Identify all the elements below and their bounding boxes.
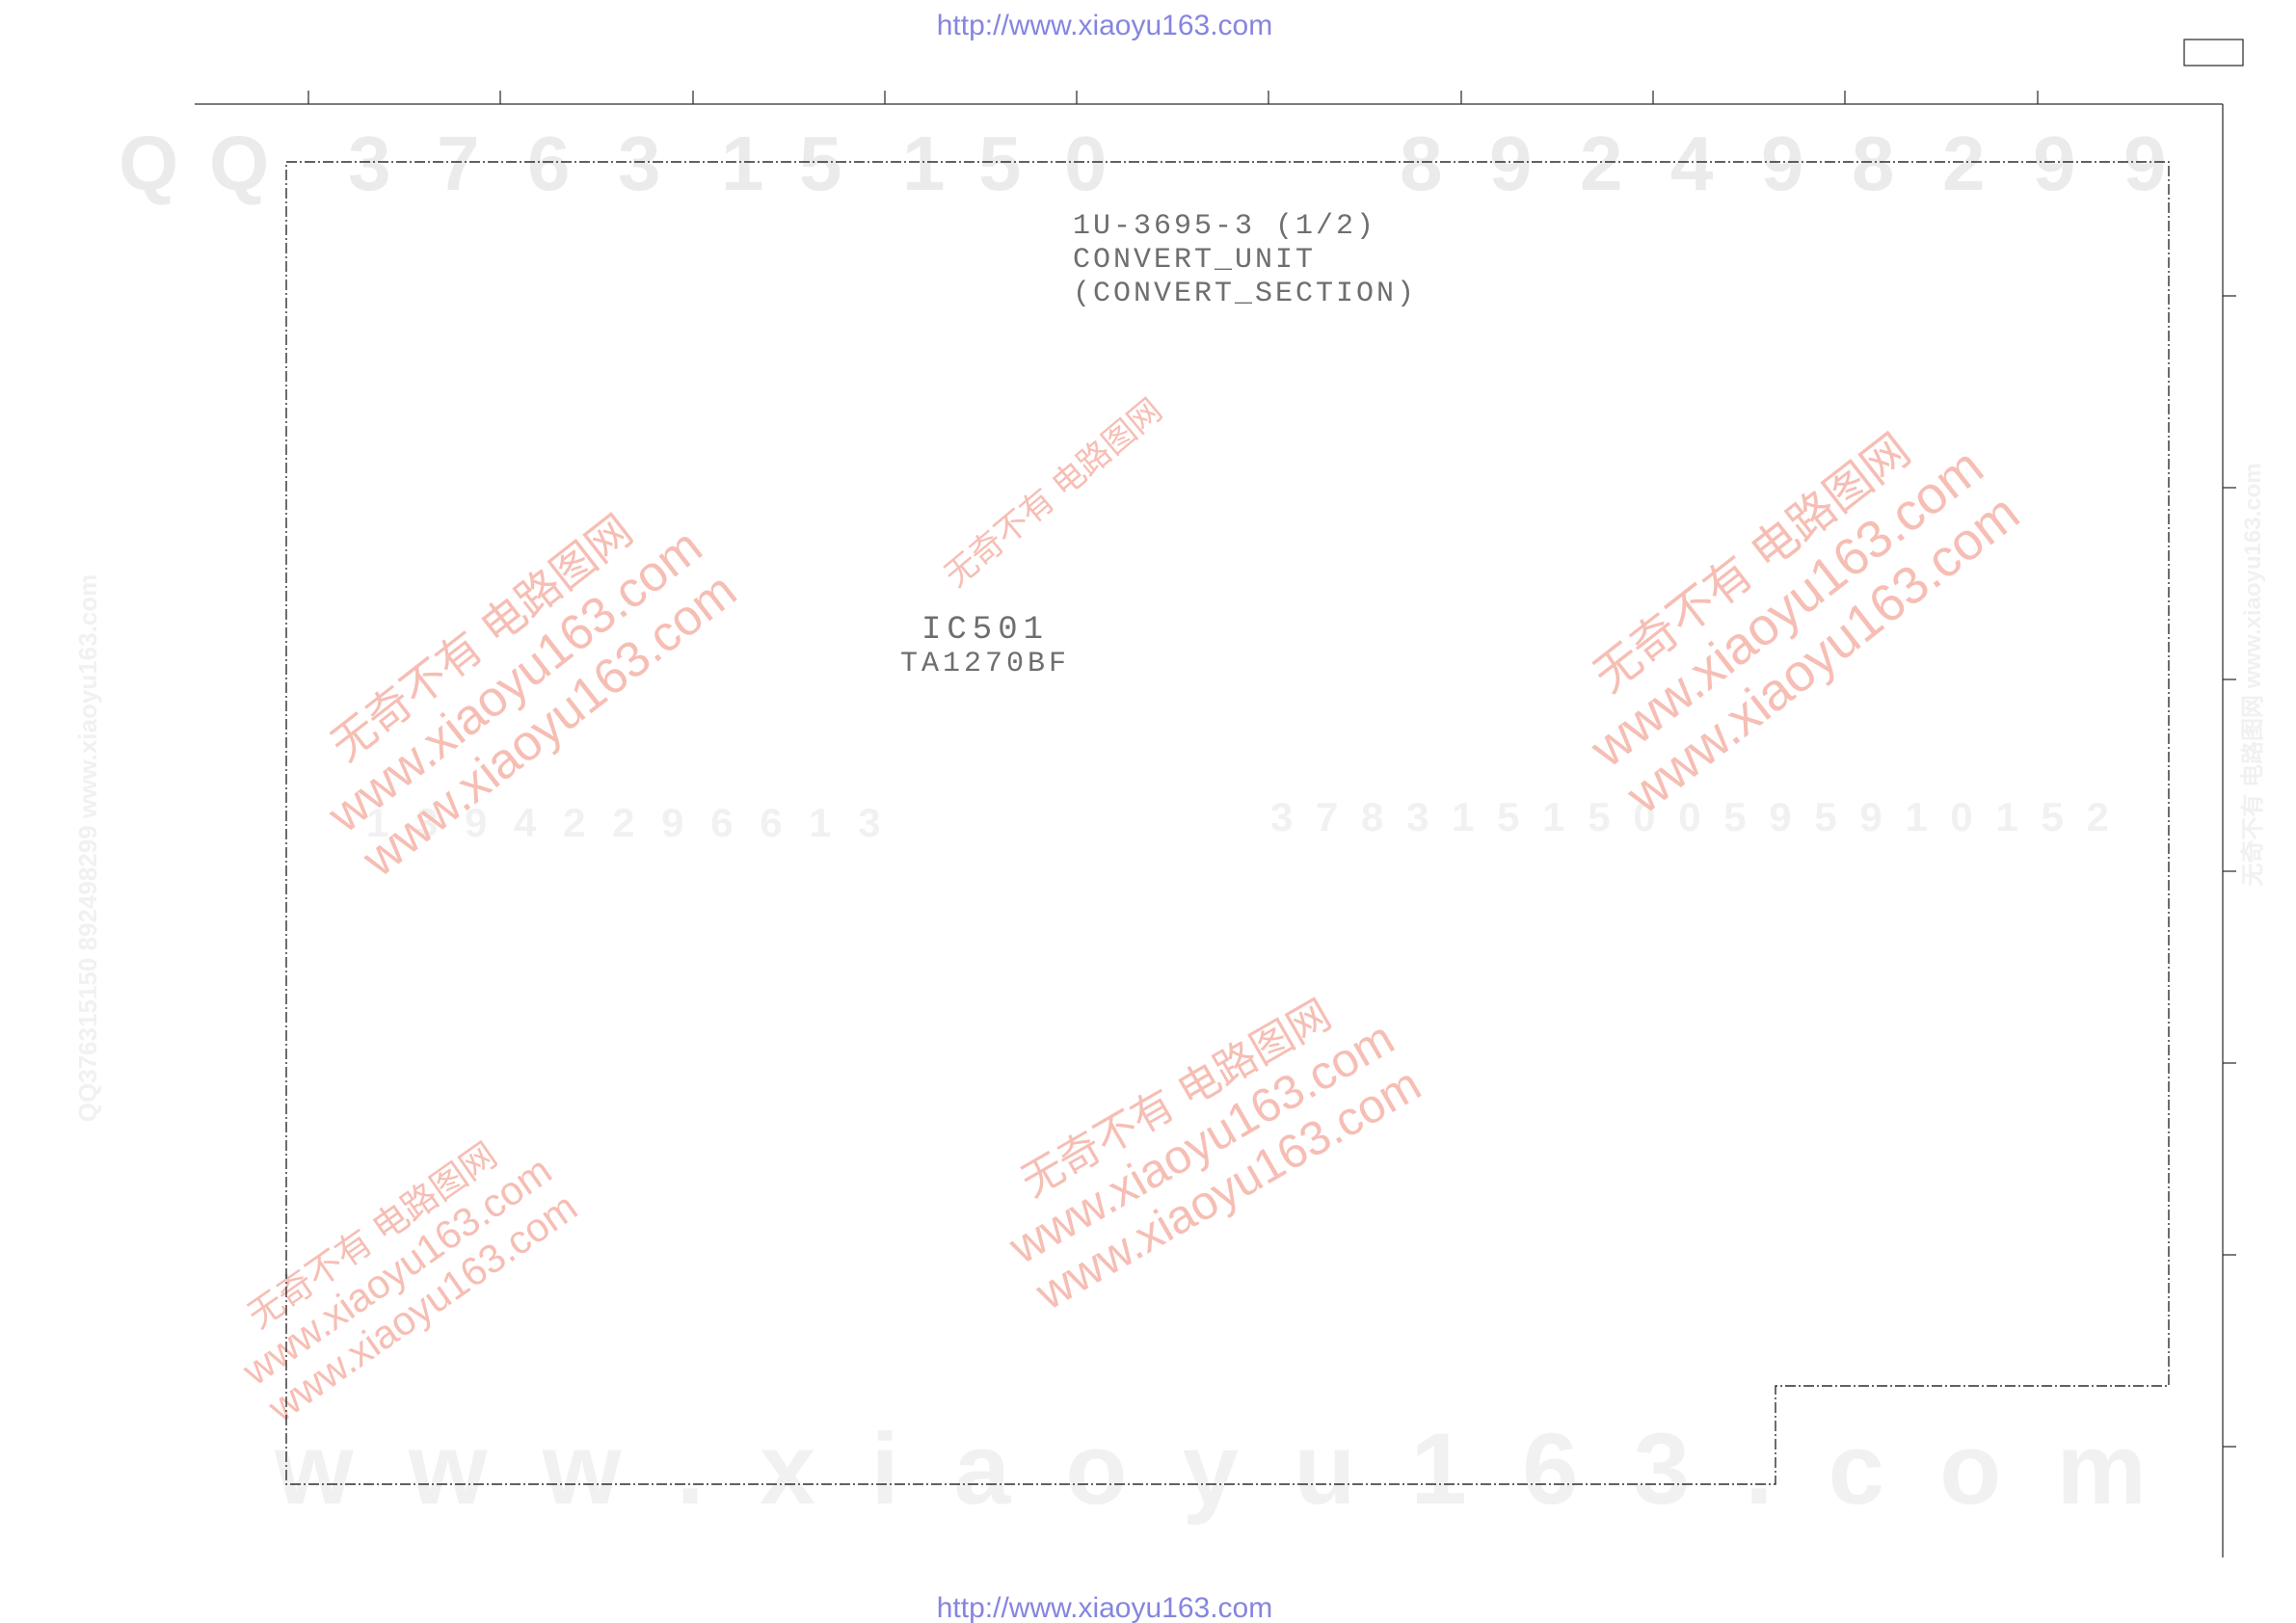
watermark pink center-bottom [975,970,1429,1320]
svg-text:1: 1 [721,120,764,206]
frame right ticks [2223,296,2236,1447]
watermark pink right [1546,395,2030,825]
svg-text:http://www.xiaoyu163.com: http://www.xiaoyu163.com [937,1592,1273,1623]
frame ruler ticks [308,91,2038,104]
svg-text:(CONVERT_SECTION): (CONVERT_SECTION) [1073,278,1417,310]
svg-text:TA1270BF: TA1270BF [900,648,1070,680]
svg-text:9: 9 [2123,120,2167,206]
svg-text:QQ376315150 892498299 www.xi: QQ376315150 892498299 www.xiaoyu163.com [73,574,102,1123]
svg-text:4: 4 [1670,120,1714,206]
svg-text:1U-3695-3 (1/2): 1U-3695-3 (1/2) [1073,210,1376,243]
svg-text:9: 9 [1489,120,1533,206]
svg-text:5: 5 [978,120,1022,206]
svg-text:3 7 8 3 1 5 1 5 0 0 5 9 5 9 1: 3 7 8 3 1 5 1 5 0 0 5 9 5 9 1 0 1 5 2 [1270,794,2115,839]
frame dash-dot border [286,162,2169,1484]
watermark pink left-top [285,477,747,888]
svg-text:8: 8 [1400,120,1443,206]
svg-text:w w w . x i a o y u 1 6 3 . c: w w w . x i a o y u 1 6 3 . c o m [274,1413,2160,1526]
svg-text:Q: Q [209,120,269,206]
svg-text:8: 8 [1852,120,1895,206]
svg-text:1: 1 [902,120,946,206]
frame top-right revision box [2184,40,2243,66]
svg-text:7: 7 [437,120,480,206]
svg-text:无奇不有 电路图网 www.xiaoyu163.com: 无奇不有 电路图网 www.xiaoyu163.com [2239,463,2266,886]
svg-text:5: 5 [799,120,842,206]
watermark pink left-bottom [210,1114,585,1430]
svg-text:6: 6 [527,120,571,206]
svg-text:3: 3 [348,120,391,206]
svg-text:http://www.xiaoyu163.com: http://www.xiaoyu163.com [937,10,1273,41]
svg-text:IC501: IC501 [921,612,1049,649]
watermark pink top-center small [938,392,1169,595]
svg-text:CONVERT_UNIT: CONVERT_UNIT [1073,244,1316,277]
svg-text:9: 9 [2033,120,2076,206]
frame top ruler line [195,103,2223,105]
svg-text:9: 9 [1761,120,1804,206]
svg-text:Q: Q [119,120,178,206]
svg-text:0: 0 [1064,120,1108,206]
frame right border line [2222,104,2224,1557]
svg-text:2: 2 [1580,120,1623,206]
svg-text:2: 2 [1942,120,1986,206]
svg-text:3: 3 [618,120,661,206]
